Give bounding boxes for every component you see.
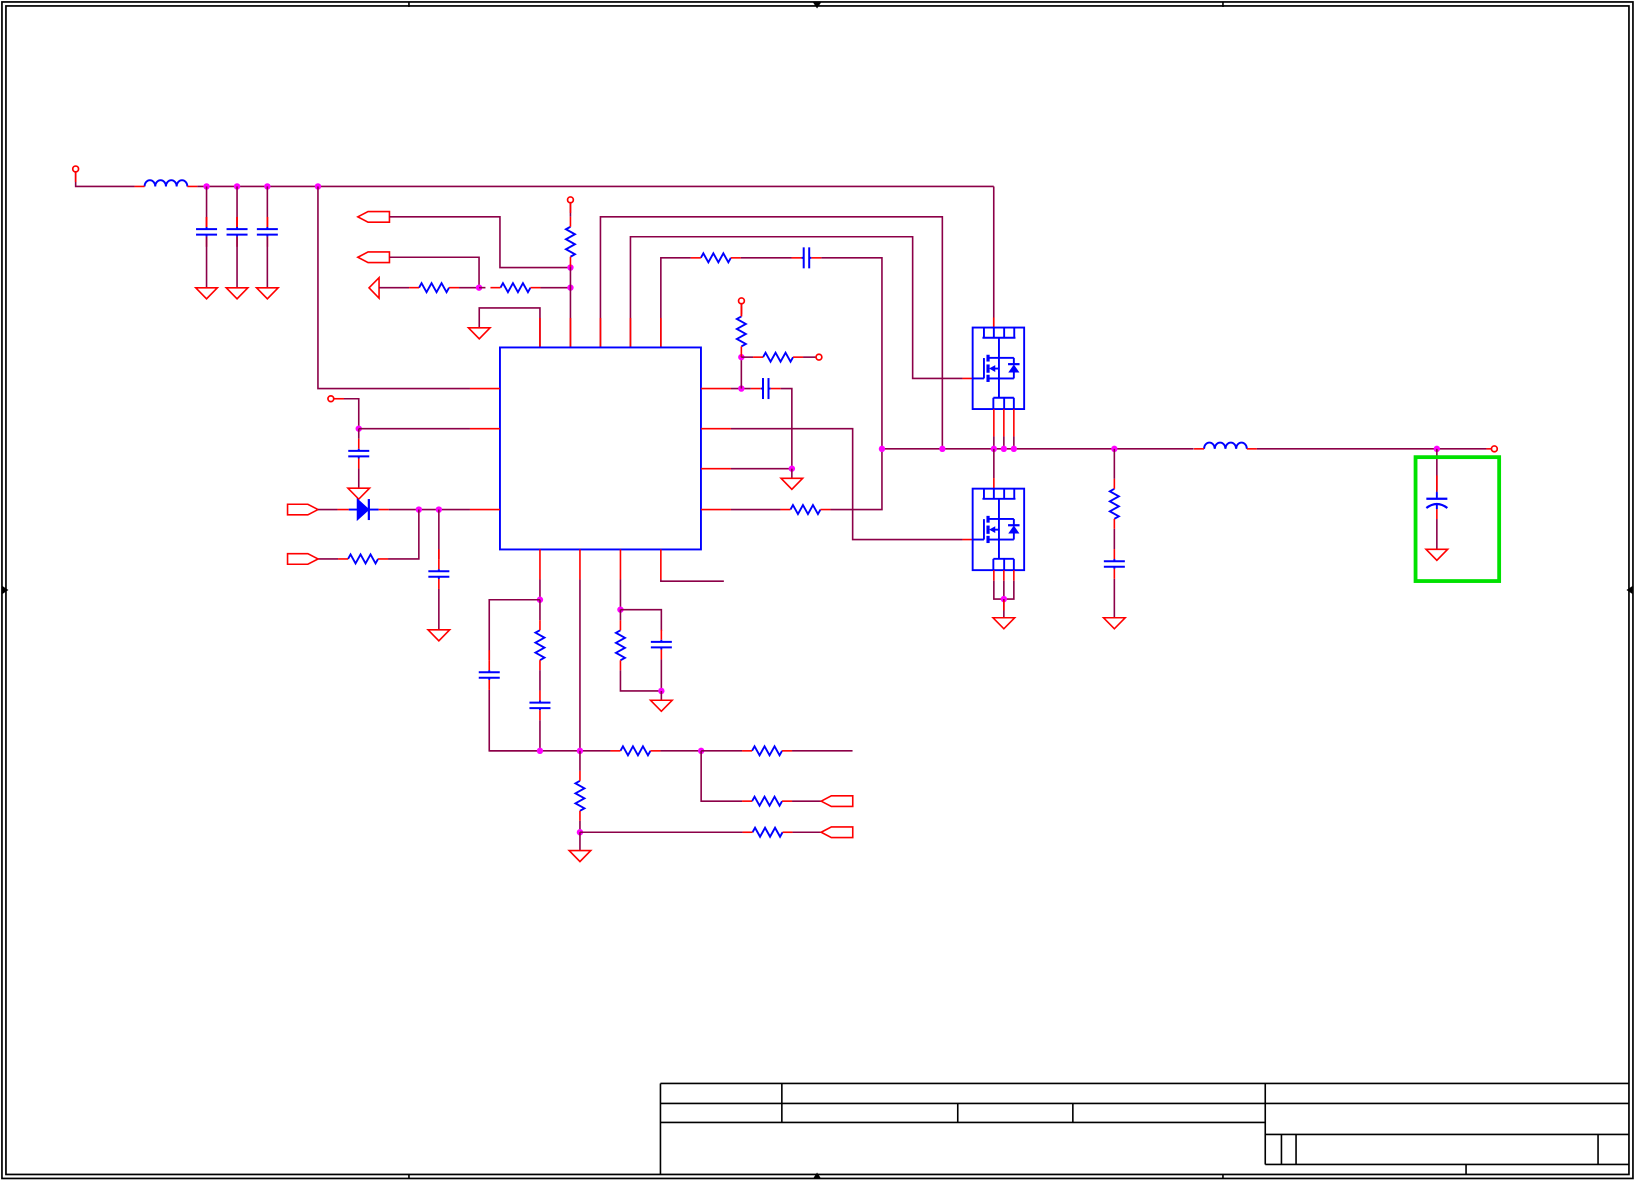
- diode D1: [338, 499, 389, 520]
- ground C3: [257, 288, 279, 299]
- wire R9 to C8: [1113, 529, 1115, 549]
- wire IC pinB4 stub: [661, 579, 724, 581]
- junction SW d: [1001, 446, 1007, 452]
- wire junction right to C12: [620, 610, 661, 631]
- port VCC pullup: [568, 197, 574, 203]
- capacitor C7 boot2: [751, 378, 781, 399]
- junction rail C2: [234, 183, 240, 189]
- wire port to D1: [318, 509, 338, 511]
- wire D1 to IC pin FB: [389, 509, 470, 511]
- ground R11/C12: [651, 700, 673, 711]
- port SS circle: [328, 396, 334, 402]
- ground C8: [1104, 618, 1126, 629]
- wire VCC to R3: [569, 203, 571, 217]
- capacitor C8 snubber: [1104, 549, 1125, 579]
- junction SW a: [879, 446, 885, 452]
- wire ILIM to R6: [740, 304, 742, 317]
- wire EN to junction: [389, 217, 570, 268]
- wire SW to Q2 drain: [993, 449, 995, 478]
- wire R6 to junction: [740, 355, 742, 358]
- wire IC pin5 to RC: [661, 258, 691, 348]
- resistor R16: [743, 828, 793, 837]
- junction SW e: [1011, 446, 1017, 452]
- wire R1 to junction: [459, 287, 479, 289]
- wire IC pin1 gnd-L: [479, 308, 540, 348]
- wire C4 to SW riser: [821, 258, 882, 449]
- junction rail riser: [315, 183, 321, 189]
- wire junction to C5: [358, 429, 360, 439]
- wire junction to R13: [701, 750, 742, 752]
- wire C7 to gnd junction: [781, 389, 792, 469]
- junction bottom a: [537, 748, 543, 754]
- output port J2: [1491, 446, 1497, 452]
- border zone tick bottom-left: [408, 1174, 410, 1179]
- junction R2 net: [567, 284, 573, 290]
- port ILIM circle: [739, 298, 745, 304]
- wire pinB2 to R15: [579, 751, 581, 771]
- wire R5 to port: [318, 558, 338, 560]
- wire SS to junction: [334, 399, 359, 429]
- resistor R2: [490, 283, 540, 292]
- wire R13 end: [792, 750, 853, 752]
- capacitor C3: [257, 217, 278, 247]
- ground C1: [196, 288, 218, 299]
- transistor Q2 low-side: [973, 489, 1025, 571]
- wire J1 to rail: [76, 172, 135, 186]
- wire IC pinR4 to SW riser: [731, 509, 781, 511]
- junction rail C1: [203, 183, 209, 189]
- ground C5: [348, 488, 370, 499]
- resistor R7: [753, 353, 803, 362]
- port FB1: [821, 796, 853, 807]
- resistor R1: [409, 283, 459, 292]
- capacitor C1: [196, 217, 217, 247]
- wire C8 to ground: [1113, 579, 1115, 618]
- wire junction to R11: [619, 610, 621, 621]
- wire R12 to junction: [660, 750, 701, 752]
- wire C6 to ground: [438, 589, 440, 630]
- wire C1 to ground: [206, 237, 208, 288]
- port PG: [358, 252, 390, 263]
- Q1 source pin stubs: [994, 409, 1014, 436]
- junction SS net: [356, 425, 362, 431]
- inductor L1: [135, 180, 198, 186]
- capacitor C5: [348, 439, 369, 469]
- wire C10 down to bottom rail: [489, 690, 540, 751]
- wire R14 to port: [792, 800, 821, 802]
- resistor R11: [616, 620, 625, 670]
- wire R8 to SW riser: [830, 449, 882, 510]
- border centre mark top: [813, 2, 821, 8]
- junction rail C3: [264, 183, 270, 189]
- wire C9 to ground: [1436, 519, 1438, 549]
- wire Q1 source to SW b: [1003, 436, 1005, 448]
- IC left pin stubs: [470, 389, 500, 510]
- junction output: [1434, 446, 1440, 452]
- wire junction to R10: [539, 600, 541, 620]
- wire SYNC to R1: [379, 287, 409, 289]
- wire C12 down: [660, 660, 662, 691]
- wire C11 to bottom rail: [539, 720, 541, 751]
- resistor R9 snubber: [1110, 479, 1119, 529]
- title block: [660, 1083, 1628, 1175]
- junction SW b: [939, 446, 945, 452]
- wire junction down to R5: [388, 510, 419, 559]
- wire junction to ground: [579, 832, 581, 850]
- wire C2 to ground: [236, 237, 238, 288]
- wire junction down to C6: [438, 510, 440, 560]
- IC top pin stubs: [540, 318, 661, 348]
- wire Q1 source to SW c: [1013, 436, 1015, 448]
- resistor R14: [742, 797, 792, 806]
- ground C9: [1426, 549, 1448, 560]
- ground IC pin1: [468, 328, 490, 339]
- junction D1 net a: [416, 506, 422, 512]
- Q2 source pin stubs: [994, 570, 1014, 581]
- wire junction down to IC pin2: [569, 268, 571, 348]
- wire C5 to ground: [358, 469, 360, 489]
- wire rail riser to VIN pin: [318, 186, 470, 388]
- border zone tick bottom-right: [1222, 1174, 1224, 1179]
- ground C2: [226, 288, 248, 299]
- junction PG/R chain: [476, 284, 482, 290]
- resistor R8: [780, 505, 830, 514]
- wire SW to R9: [1113, 449, 1115, 479]
- port COMP in: [288, 504, 319, 515]
- wire junction to ground: [791, 469, 793, 479]
- junction bottom c: [698, 748, 704, 754]
- highlight box: [1416, 457, 1500, 581]
- wire SW node rail: [882, 448, 1194, 450]
- border centre mark left: [2, 586, 9, 594]
- capacitor C10: [479, 660, 500, 690]
- junction R11/C12: [658, 688, 664, 694]
- wire output down to C9: [1436, 449, 1438, 492]
- junction D1 net b: [436, 506, 442, 512]
- resistor R12: [610, 746, 660, 755]
- wire L1 to C column junctions: [197, 185, 993, 187]
- wire R3 to junction: [569, 266, 571, 269]
- transistor Q1 high-side: [973, 328, 1025, 410]
- junction bottom b: [577, 748, 583, 754]
- wire rail to C1: [206, 186, 208, 227]
- junction R15: [577, 829, 583, 835]
- resistor R13: [742, 746, 792, 755]
- wire junction to R7: [741, 356, 753, 358]
- wire rail to C2: [236, 186, 238, 227]
- wire rail down to Q1 drain: [993, 186, 995, 327]
- wire IC pinR1 to boot junction: [731, 388, 751, 390]
- IC bottom pin stubs: [540, 549, 661, 579]
- port FB2: [821, 827, 853, 838]
- wire junction left branch: [489, 600, 540, 660]
- wire PG down to divider: [389, 257, 479, 287]
- border centre mark bottom: [813, 1172, 821, 1178]
- wire junction to R2: [479, 287, 485, 289]
- resistor R10: [535, 620, 544, 670]
- wire R10 to C11: [539, 670, 541, 690]
- IC right pin stubs: [701, 389, 731, 510]
- wire IC pinR2 to lower gate: [731, 429, 963, 540]
- resistor R6: [737, 306, 746, 356]
- resistor R15: [575, 771, 584, 821]
- wire L2 to output: [1257, 448, 1487, 450]
- wire bottom rail: [489, 750, 610, 752]
- junction pinR3 gnd: [789, 465, 795, 471]
- wire R11 to junction: [620, 670, 661, 691]
- ground Q2: [993, 618, 1015, 629]
- port EN: [358, 212, 390, 223]
- wire Q1 source to SW a: [993, 436, 995, 448]
- ground pinR3: [781, 478, 803, 489]
- input port J1: [73, 166, 79, 172]
- wire IC pinB3 down: [619, 579, 621, 609]
- wire boot junction up: [740, 357, 742, 388]
- op-amp controller IC U1: [500, 347, 701, 549]
- capacitor C4 boot: [792, 247, 822, 268]
- port SYNC triangle: [369, 278, 379, 299]
- junction SW f: [1111, 446, 1117, 452]
- border zone tick top-left: [408, 2, 410, 7]
- wire junction to R16: [580, 831, 743, 833]
- resistor R3: [566, 217, 575, 267]
- wire Q2 source to ground: [1003, 599, 1005, 618]
- wire R4 to C4: [741, 257, 792, 259]
- resistor R5: [338, 554, 388, 563]
- ground R15: [569, 851, 591, 862]
- wire R16 to port: [793, 831, 822, 833]
- wire R7 to circle port: [803, 356, 816, 358]
- ground C6: [428, 630, 450, 641]
- wire C3 to ground: [266, 237, 268, 288]
- wire junction to ground: [660, 691, 662, 700]
- junction boot b: [738, 354, 744, 360]
- wire IC pinB1 down: [539, 579, 541, 599]
- port COMP2 in: [288, 554, 319, 565]
- capacitor C2: [227, 217, 248, 247]
- wire R2 to pin junction: [540, 287, 570, 289]
- junction Q2 source: [1001, 596, 1007, 602]
- capacitor C9 polarized: [1426, 492, 1447, 519]
- junction pinB1: [537, 597, 543, 603]
- wire IC pin4 gate top: [630, 237, 962, 379]
- wire IC pinR3 to gnd junction: [731, 468, 792, 470]
- capacitor C6: [428, 559, 449, 589]
- port ILIM2 circle: [816, 354, 822, 360]
- wire rail to C3: [266, 186, 268, 227]
- inductor L2: [1194, 443, 1257, 449]
- wire IC pinB2 down: [579, 579, 581, 750]
- junction boot a: [738, 385, 744, 391]
- capacitor C12: [651, 630, 672, 660]
- wire junction down to R14: [701, 751, 742, 801]
- resistor R4 boot: [691, 253, 741, 262]
- border zone tick top-right: [1222, 2, 1224, 7]
- wire Q2 source bus: [994, 581, 1014, 599]
- border centre mark right: [1626, 586, 1633, 594]
- junction pinB3: [617, 606, 623, 612]
- junction SW c: [991, 446, 997, 452]
- junction EN net: [567, 264, 573, 270]
- wire R15 to junction: [579, 821, 581, 832]
- capacitor C11: [529, 690, 550, 720]
- wire IC pin3 long top: [600, 217, 942, 449]
- wire junction to IC pin SS: [359, 428, 470, 430]
